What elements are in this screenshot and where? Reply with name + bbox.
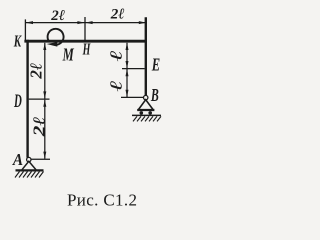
svg-text:ℓ: ℓ xyxy=(106,80,125,91)
svg-text:2ℓ: 2ℓ xyxy=(30,116,49,137)
arrowhead middle right xyxy=(85,21,92,24)
support B: triangle xyxy=(139,100,153,110)
arrowhead middle left xyxy=(77,21,84,24)
support A: hatching xyxy=(15,172,44,178)
tick at D xyxy=(29,98,50,100)
right column (above beam tick to B) xyxy=(145,17,147,95)
support A: pin xyxy=(27,157,31,161)
svg-text:Рис. С1.2: Рис. С1.2 xyxy=(67,190,137,209)
support B: pin xyxy=(144,95,148,99)
moment M arc xyxy=(48,29,64,45)
svg-text:A: A xyxy=(12,151,23,169)
svg-text:E: E xyxy=(151,55,160,75)
svg-text:2ℓ: 2ℓ xyxy=(50,8,65,24)
svg-text:D: D xyxy=(13,91,22,112)
arrowhead left end xyxy=(26,21,33,24)
svg-text:M: M xyxy=(62,46,75,66)
beam KH (top horizontal member) xyxy=(24,40,147,43)
tick at B level xyxy=(121,96,144,98)
svg-text:2ℓ: 2ℓ xyxy=(110,6,125,22)
svg-text:B: B xyxy=(150,86,159,106)
support B: roller right xyxy=(148,111,152,115)
tick at K xyxy=(24,19,26,40)
arrowhead right end xyxy=(139,21,146,24)
support B: roller left xyxy=(140,111,144,115)
svg-text:H: H xyxy=(82,40,91,58)
support B: triangle base xyxy=(137,109,154,111)
left column K-D-A xyxy=(26,40,28,158)
left vertical dimension K-D xyxy=(44,43,46,99)
svg-text:2ℓ: 2ℓ xyxy=(27,63,46,80)
svg-text:K: K xyxy=(13,32,22,51)
right vertical dimension E-B xyxy=(126,69,128,97)
moment M arrowhead xyxy=(47,42,58,47)
top dimension line xyxy=(25,22,146,24)
svg-text:ℓ: ℓ xyxy=(106,50,125,61)
support A: triangle xyxy=(22,161,36,169)
right vertical dimension H-E xyxy=(126,43,128,68)
support B: ground line xyxy=(132,114,161,116)
support B: hatching xyxy=(133,116,161,121)
left vertical dimension D-A xyxy=(44,100,46,159)
support A: ground line xyxy=(16,169,44,171)
tick at H xyxy=(84,17,86,41)
tick at A level xyxy=(32,158,51,160)
tick at E xyxy=(122,68,145,70)
